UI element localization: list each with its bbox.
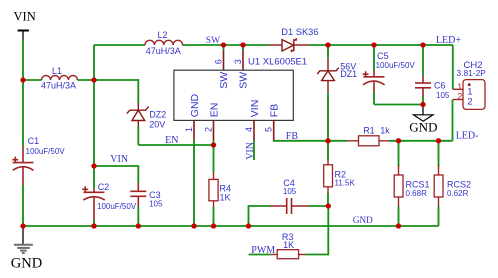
node: L1 left / VIN rail — [20, 77, 25, 82]
wire node B down to VIN node — [93, 80, 95, 166]
wire GND bus — [23, 225, 439, 227]
inductor L2 — [145, 40, 183, 45]
svg-text:PWM: PWM — [251, 245, 275, 256]
wire R2 bottom to C4 node — [327, 193, 329, 206]
svg-text:100uF/50V: 100uF/50V — [97, 202, 137, 211]
node: D1 cathode / DZ1 — [325, 42, 330, 47]
resistor R3 — [271, 254, 277, 256]
wire C5 to C6 bottom — [374, 104, 423, 106]
node: bus / C4 branch — [246, 223, 251, 228]
svg-text:C2: C2 — [98, 182, 110, 192]
capacitor C4 — [270, 198, 308, 214]
svg-text:47uH/3A: 47uH/3A — [146, 46, 181, 56]
svg-text:105: 105 — [436, 91, 450, 100]
svg-text:SW: SW — [238, 72, 250, 89]
svg-text:DZ2: DZ2 — [149, 110, 166, 120]
wire node B up to top rail — [93, 45, 95, 80]
node: bus / C1 / GND — [20, 223, 25, 228]
wire C5 top lead — [373, 45, 375, 71]
wire R1 right to RCS nodes — [389, 140, 453, 142]
IC U1 pin stubs — [194, 51, 274, 141]
node: C5 top — [371, 42, 376, 47]
node: RCS2 / LED- — [436, 138, 441, 143]
node: bus / R4 — [211, 223, 216, 228]
svg-text:11.5K: 11.5K — [335, 179, 356, 188]
wire RCS2 top lead — [438, 141, 440, 167]
svg-text:DZ1: DZ1 — [340, 69, 357, 79]
svg-text:5: 5 — [264, 127, 274, 132]
node: EN / pin2 / R4 — [211, 142, 216, 147]
wire CH2 pin2 down to LED- row — [452, 100, 454, 141]
pin 5 FB stub — [273, 120, 275, 140]
wire EN horizontal — [138, 144, 213, 146]
svg-text:20V: 20V — [149, 120, 165, 130]
node: C6 top — [420, 42, 425, 47]
svg-text:R1: R1 — [363, 126, 375, 136]
wire pin3 stub to rail — [242, 45, 244, 51]
pin 1 GND stub — [193, 120, 195, 140]
wire VIN node to C3 — [94, 166, 138, 183]
svg-text:EN: EN — [165, 135, 178, 146]
svg-text:L1: L1 — [52, 66, 62, 76]
pin 6 SW stub — [223, 51, 225, 71]
wire pin4 VIN stub — [253, 140, 255, 160]
wire R4 bottom to bus — [213, 207, 215, 226]
ground (arrow) near C6 — [422, 105, 424, 115]
pin 3 SW stub — [242, 51, 244, 71]
svg-text:2: 2 — [203, 127, 213, 132]
pin 4 VIN stub — [253, 120, 255, 140]
inductor L1 — [42, 76, 78, 81]
node: FB / DZ1 / R2 — [325, 138, 330, 143]
svg-text:C6: C6 — [434, 81, 446, 91]
node: L1 right / L2 / DZ2 — [91, 77, 96, 82]
resistor RCS2 — [438, 166, 440, 176]
resistor R2 — [327, 160, 329, 165]
node: bus / C3 — [136, 223, 141, 228]
svg-text:C5: C5 — [377, 51, 389, 61]
op-amp U1 XL6005E1 body — [174, 70, 293, 120]
svg-text:0.62R: 0.62R — [447, 189, 469, 198]
svg-text:FB: FB — [286, 131, 299, 142]
svg-text:1k: 1k — [380, 126, 390, 136]
svg-text:105: 105 — [283, 187, 297, 196]
svg-text:C1: C1 — [28, 136, 40, 146]
capacitor C6 — [415, 76, 431, 97]
wire C6 bottom lead — [422, 97, 424, 105]
wire RCS2 bottom lead — [438, 207, 440, 227]
svg-text:VIN: VIN — [249, 100, 261, 118]
capacitor C5 — [363, 70, 385, 92]
node: SW pin6 — [221, 42, 226, 47]
svg-text:VIN: VIN — [245, 142, 256, 160]
wire C4 right lead to node — [308, 205, 328, 207]
connector CH2 — [453, 88, 463, 90]
capacitor C3 — [130, 183, 146, 207]
svg-text:2: 2 — [467, 97, 472, 108]
wire C4 node down to R3 — [306, 206, 329, 255]
wire PWM to R3 — [249, 254, 271, 256]
resistor R4 — [213, 173, 215, 180]
capacitor C1 — [12, 146, 33, 185]
svg-text:GND: GND — [11, 255, 42, 271]
svg-text:L2: L2 — [158, 30, 168, 40]
wire DZ1 top to rail — [327, 45, 329, 59]
svg-text:2: 2 — [457, 92, 462, 102]
svg-text:0.68R: 0.68R — [406, 189, 428, 198]
resistor R1 — [347, 140, 359, 142]
svg-text:1K: 1K — [283, 240, 294, 250]
wire left rail above C1 — [22, 80, 24, 146]
wire EN node to R4 — [213, 145, 215, 173]
svg-text:LED-: LED- — [456, 131, 479, 142]
svg-text:4: 4 — [244, 127, 254, 132]
resistor RCS1 — [398, 166, 400, 176]
wire node B to DZ2 top — [94, 80, 138, 103]
schottky diode D1 — [269, 38, 308, 52]
node: bus / RCS1 — [396, 223, 401, 228]
wire top rail L2 to D1 — [183, 44, 270, 46]
svg-text:3: 3 — [233, 59, 243, 64]
wire C6 top lead — [422, 45, 424, 76]
node: SW pin3 — [240, 42, 245, 47]
wire RCS1 bottom lead — [398, 207, 400, 227]
wire RCS1 top lead — [398, 141, 400, 167]
svg-text:EN: EN — [208, 103, 220, 118]
svg-text:100uF/50V: 100uF/50V — [376, 61, 416, 70]
wire C4 row left segment — [249, 206, 271, 226]
svg-text:LED+: LED+ — [436, 35, 461, 46]
wire pin6 stub to rail — [223, 45, 225, 51]
svg-text:SW: SW — [206, 36, 220, 46]
svg-text:GND: GND — [189, 93, 201, 117]
wire R2 top lead — [327, 141, 329, 160]
capacitor C2 — [82, 186, 105, 220]
svg-text:100uF/50V: 100uF/50V — [26, 147, 66, 156]
pin 2 EN stub — [213, 120, 215, 140]
svg-text:U1 XL6005E1: U1 XL6005E1 — [248, 57, 307, 68]
svg-text:3.81-2P: 3.81-2P — [457, 68, 487, 78]
node: bus / C2 — [91, 223, 96, 228]
svg-text:47uH/3A: 47uH/3A — [41, 81, 76, 91]
node: bus / pin1 — [191, 223, 196, 228]
wire L1 right lead — [78, 79, 95, 81]
node: R1 / RCS1 — [396, 138, 401, 143]
svg-text:RCS1: RCS1 — [406, 180, 430, 190]
node: C6 bottom / GND — [420, 102, 425, 107]
svg-text:RCS2: RCS2 — [447, 180, 471, 190]
wire top rail left segment — [94, 44, 145, 46]
svg-text:VIN: VIN — [14, 10, 36, 24]
wire left rail below C1 — [22, 185, 24, 226]
node: VIN / C2 / C3 — [91, 163, 96, 168]
wire VIN node down to C2 — [93, 166, 95, 189]
wire pin2 to EN node — [213, 140, 215, 145]
wire C3 bottom to bus — [137, 206, 139, 226]
wire DZ1 bottom to FB node — [327, 93, 329, 141]
wire C5 bottom lead — [373, 92, 375, 105]
wire top rail D1 to CH2 corner — [308, 44, 453, 46]
zener diode DZ1 — [317, 59, 338, 94]
svg-text:VIN: VIN — [110, 154, 128, 165]
svg-text:GND: GND — [409, 119, 437, 134]
svg-text:1K: 1K — [220, 193, 231, 203]
wire FB row pin5 to DZ1 node — [274, 139, 328, 142]
svg-text:C3: C3 — [149, 190, 161, 200]
svg-text:1: 1 — [457, 82, 462, 92]
svg-text:1: 1 — [184, 127, 194, 132]
svg-text:GND: GND — [353, 215, 373, 225]
svg-text:105: 105 — [149, 200, 163, 209]
svg-text:SW: SW — [218, 72, 230, 89]
svg-text:6: 6 — [213, 59, 223, 64]
wire FB node to R1 — [328, 140, 347, 142]
node: C4 / R2 / R3 — [326, 203, 331, 208]
svg-text:D1 SK36: D1 SK36 — [281, 27, 318, 37]
zener diode DZ2 — [127, 103, 149, 127]
svg-text:FB: FB — [269, 104, 281, 117]
wire C2 bottom to bus — [93, 220, 95, 226]
wire L1 left lead — [23, 79, 42, 81]
wire LED+ down to CH2 pin1 — [452, 45, 454, 89]
wire pin1 GND down to bus — [193, 140, 195, 226]
ground (earth) bottom-left — [22, 226, 24, 244]
wire DZ2 bottom to EN wire — [137, 127, 139, 146]
wire VIN port to node A — [22, 39, 24, 80]
